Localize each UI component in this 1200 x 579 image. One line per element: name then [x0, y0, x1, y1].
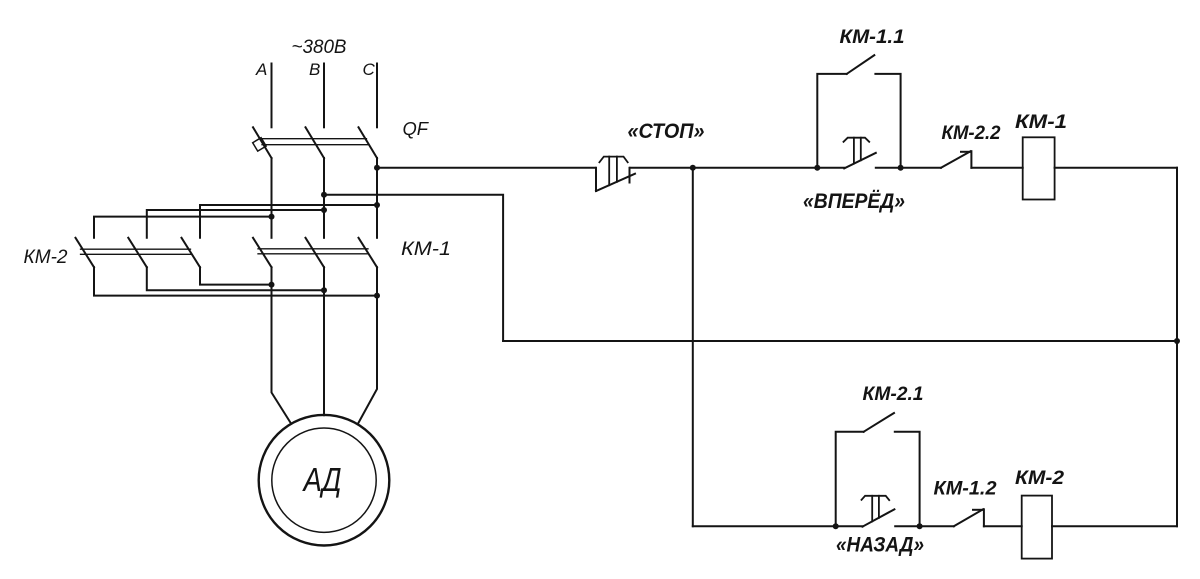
wire coil KM-2 to right bus: [1052, 525, 1177, 527]
svg-text:КМ-1.1: КМ-1.1: [840, 27, 905, 48]
node return junction: [1174, 338, 1180, 344]
breaker QF trip box: [253, 138, 266, 151]
node crossover B top: [321, 207, 327, 213]
node tap B: [321, 192, 327, 198]
wire control line 2 tap from phase B: [324, 195, 503, 341]
wire KM-2.2 to coil KM-1: [971, 167, 1022, 169]
node tap C: [374, 165, 380, 171]
contactor KM-2 linkage bar: [81, 249, 191, 254]
aux contact KM-2.2 tick: [961, 151, 971, 153]
svg-text:«НАЗАД»: «НАЗАД»: [836, 534, 924, 557]
breaker QF linkage bar: [260, 139, 368, 145]
svg-text:КМ-2.1: КМ-2.1: [863, 384, 924, 405]
pushbutton STOP left terminal: [595, 168, 597, 191]
svg-text:КМ-2.2: КМ-2.2: [942, 123, 1001, 144]
aux contact KM-1.1 blade: [847, 55, 875, 74]
svg-text:КМ-2: КМ-2: [24, 247, 68, 268]
node forward left: [814, 165, 820, 171]
contactor KM-1 pole B: [306, 238, 325, 267]
wire phase C supply drop: [376, 64, 378, 128]
wire motor lead B: [323, 267, 325, 415]
wire back to KM-1.2: [895, 525, 954, 527]
wire right bus vertical: [1176, 168, 1178, 527]
wire coil KM-1 to right bus: [1055, 167, 1177, 169]
contactor KM-1 pole C: [359, 238, 378, 267]
contactor KM-2 pole 2: [128, 238, 147, 267]
motor AD outer circle: [259, 415, 390, 546]
wire phase B QF to KM-1: [323, 158, 325, 238]
svg-text:КМ-1: КМ-1: [1015, 112, 1067, 133]
aux contact KM-2.1 blade: [864, 413, 894, 432]
wire KM-1.2 to coil KM-2: [984, 525, 1022, 527]
aux contact KM-1.1 holding loop: [817, 74, 846, 168]
pushbutton STOP actuator: [599, 157, 627, 186]
breaker QF pole A: [253, 127, 272, 158]
aux contact KM-2.1 holding loop: [836, 432, 864, 527]
aux contact KM-2.2 blade: [941, 151, 971, 168]
node stop junction: [690, 165, 696, 171]
pushbutton BACK actuator: [862, 496, 890, 522]
contactor KM-2 pole 3: [182, 238, 201, 267]
aux contact KM-1.2 tick: [973, 509, 984, 511]
wire phase C QF to KM-1: [376, 158, 378, 238]
node crossover A top: [269, 214, 275, 220]
svg-text:КМ-1.2: КМ-1.2: [934, 479, 997, 500]
wire STOP to forward branch: [630, 167, 844, 169]
wire reverse rung left: [693, 525, 863, 527]
wire crossover KM-2 pole2 top to phase B: [147, 210, 324, 238]
wire crossover KM-2 pole2 bottom to phase B: [147, 267, 324, 290]
motor AD inner circle: [272, 428, 376, 532]
svg-text:КМ-1: КМ-1: [401, 239, 451, 260]
wire crossover KM-2 pole1 bottom to phase C: [94, 267, 377, 295]
aux contact KM-1.2 blade: [954, 509, 983, 526]
node crossover B bottom: [321, 287, 327, 293]
pushbutton FORWARD blade: [844, 153, 876, 169]
contactor KM-1 pole A: [253, 238, 272, 267]
node forward right: [898, 165, 904, 171]
node crossover A bottom: [269, 282, 275, 288]
aux contact KM-1.2 right drop: [983, 509, 985, 526]
pushbutton FORWARD actuator: [844, 138, 870, 164]
wire phase A supply drop: [271, 64, 273, 128]
pushbutton BACK blade: [862, 509, 894, 526]
wire motor lead A: [272, 267, 292, 424]
aux contact KM-1.1 right side: [875, 74, 900, 168]
svg-text:АД: АД: [302, 461, 342, 498]
svg-text:В: В: [309, 60, 320, 79]
aux contact KM-2.1 right side: [895, 432, 920, 527]
pushbutton STOP blade: [596, 174, 635, 191]
wire down branch to reverse rung: [692, 168, 694, 527]
wire crossover KM-2 pole3 top to phase C: [200, 205, 377, 238]
wire crossover KM-2 pole1 top to phase A: [94, 217, 272, 238]
wire control return: [503, 340, 1177, 342]
node reverse right: [917, 523, 923, 529]
breaker QF pole B: [306, 127, 325, 158]
node reverse left: [833, 523, 839, 529]
wire control line 1 tap from phase C: [377, 167, 596, 169]
svg-text:С: С: [363, 60, 376, 79]
pushbutton STOP right terminal tick: [629, 168, 631, 183]
wire phase A QF to KM-1: [271, 158, 273, 238]
svg-text:QF: QF: [403, 119, 430, 139]
contactor KM-2 pole 1: [76, 238, 95, 267]
svg-text:КМ-2: КМ-2: [1015, 468, 1064, 489]
aux contact KM-2.2 right drop: [970, 151, 972, 168]
svg-text:«ВПЕРЁД»: «ВПЕРЁД»: [803, 190, 905, 213]
coil KM-2: [1022, 496, 1052, 559]
wire phase B supply drop: [323, 64, 325, 128]
node crossover C top: [374, 202, 380, 208]
svg-text:«СТОП»: «СТОП»: [628, 120, 705, 143]
wire forward to KM-2.2: [876, 167, 941, 169]
node crossover C bottom: [374, 293, 380, 299]
svg-text:А: А: [255, 60, 267, 79]
svg-text:~380В: ~380В: [292, 37, 347, 58]
wire motor lead C: [358, 267, 377, 424]
wire crossover KM-2 pole3 bottom to phase A: [200, 267, 272, 284]
coil KM-1: [1023, 137, 1055, 199]
contactor KM-1 linkage bar: [258, 249, 368, 254]
breaker QF pole C: [359, 127, 378, 158]
